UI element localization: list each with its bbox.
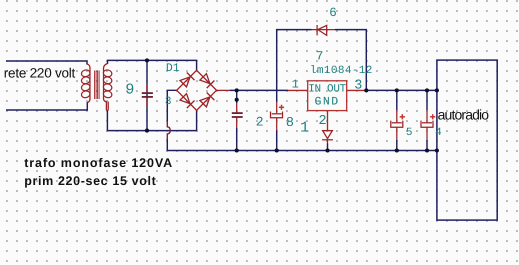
regulator U1 box lm1084-12 — [308, 81, 347, 111]
wire cap5 branch — [396, 90, 398, 110]
svg-text:lm1084-12: lm1084-12 — [310, 65, 373, 77]
svg-text:D1: D1 — [166, 62, 180, 75]
capacitor 2 plates — [232, 113, 243, 117]
wire bridge left corner to ground rail with hop — [167, 90, 176, 121]
bridge diode D1b (top to right) — [200, 74, 210, 84]
svg-text:8: 8 — [286, 116, 294, 131]
transformer secondary bottom lead (squiggle) — [104, 99, 107, 103]
node OUT cap4 — [425, 88, 429, 92]
node ground cap2 — [235, 148, 239, 152]
svg-text:3: 3 — [165, 96, 172, 108]
transformer T1 secondary winding — [103, 68, 113, 99]
wire secondary top rail to bridge top — [108, 60, 197, 70]
svg-text:1: 1 — [300, 120, 309, 137]
node ground cap8 — [275, 148, 279, 152]
node ground cap4 — [425, 148, 429, 152]
bridge diode D1d (bottom to right) — [200, 97, 210, 107]
regulator OUT pin wire — [347, 89, 367, 91]
svg-text:2: 2 — [256, 114, 264, 129]
junction dots — [145, 58, 439, 152]
svg-text:1: 1 — [292, 78, 299, 92]
svg-text:IN OUT: IN OUT — [308, 84, 346, 96]
diode 2 (under regulator GND, points down) — [322, 131, 333, 144]
svg-text:4: 4 — [435, 127, 442, 139]
capacitor 5 plus sign — [400, 114, 405, 119]
wire DC+ rail bridge to regulator IN — [230, 89, 288, 91]
svg-text:7: 7 — [316, 50, 324, 64]
svg-text:2: 2 — [319, 114, 327, 129]
svg-text:trafo monofase 120VA: trafo monofase 120VA — [24, 156, 172, 170]
regulator IN pin wire — [288, 89, 308, 91]
transformer T1 primary winding — [81, 68, 91, 99]
svg-text:5: 5 — [406, 127, 413, 139]
capacitor 8 (electrolytic) — [271, 102, 283, 131]
node secondary bottom / cap9 — [145, 129, 149, 133]
node DC+ at bridge output — [235, 88, 239, 92]
wire mains bottom (rete) — [6, 102, 87, 110]
bridge diode D1c (left to bottom) — [180, 94, 190, 104]
node ground at autoradio — [435, 148, 439, 152]
wire regulator GND to ground rail — [327, 144, 329, 151]
svg-text:3: 3 — [354, 78, 362, 93]
svg-text:6: 6 — [329, 6, 337, 20]
node OUT cap5 — [395, 88, 399, 92]
bridge diode D1a (left to top) — [180, 77, 190, 87]
node OUT at autoradio — [435, 88, 439, 92]
regulator GND pin wire — [327, 111, 329, 131]
wire diode6 loop — [277, 30, 312, 91]
capacitor 5 (electrolytic) — [391, 110, 403, 140]
wire secondary bottom rail to bridge bottom — [107, 110, 196, 131]
transformer primary bottom lead — [87, 99, 90, 103]
transformer primary top lead — [87, 64, 90, 69]
transformer T1 core — [95, 71, 100, 100]
wire ground rail — [167, 139, 437, 151]
wire mains top (rete) — [6, 61, 87, 65]
node ground cap5 — [395, 148, 399, 152]
node OUT junction — [364, 88, 368, 92]
svg-text:autoradio: autoradio — [438, 106, 490, 122]
svg-text:GND: GND — [315, 96, 339, 109]
capacitor 9 plates — [142, 93, 153, 97]
svg-text:rete 220 volt: rete 220 volt — [4, 66, 76, 81]
wires (navy) — [6, 30, 437, 151]
wire regulator OUT rail to autoradio — [366, 89, 437, 91]
capacitor 2 red stubs — [236, 103, 238, 128]
regulator U1 pin wires — [288, 90, 366, 130]
capacitor 4 plus sign — [430, 114, 435, 119]
capacitor 8 plus sign — [279, 105, 284, 110]
wire cap4 branch — [426, 90, 428, 110]
capacitor 4 (electrolytic) — [421, 110, 433, 140]
node secondary top / cap9 — [145, 58, 149, 62]
capacitor 9 red stubs — [146, 85, 148, 107]
svg-text:9: 9 — [125, 82, 134, 99]
transformer secondary top lead — [104, 64, 108, 69]
node ground diode2 — [325, 148, 329, 152]
svg-text:prim 220-sec 15 volt: prim 220-sec 15 volt — [24, 174, 156, 188]
bridge rectifier D1 frame — [177, 70, 217, 110]
autoradio load box — [437, 60, 497, 220]
node cap2 stub — [235, 98, 239, 102]
transformer T1 red pin leads — [87, 64, 108, 111]
wire hop (left bridge corner wire over secondary bottom rail) — [167, 121, 170, 139]
bridge right corner red stub — [217, 89, 231, 91]
diode 6 (protection, points left) — [312, 25, 336, 35]
wire cap8 branch — [276, 90, 278, 101]
wire cap2 branch — [236, 90, 238, 103]
wire cap9 branch vertical — [146, 60, 148, 130]
